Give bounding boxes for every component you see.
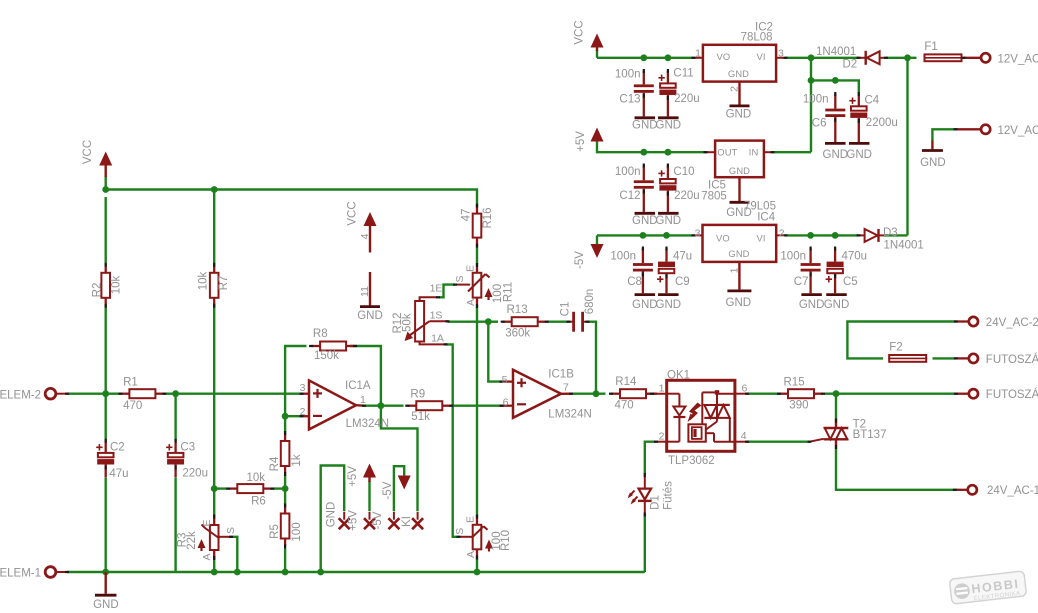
wire -5V bus	[596, 235, 598, 245]
capacitor C11 (polarized)	[667, 71, 669, 83]
resistor R13	[503, 321, 512, 323]
svg-text:100n: 100n	[780, 251, 806, 263]
svg-text:47: 47	[460, 209, 472, 222]
svg-text:C1: C1	[560, 302, 572, 317]
triac T2	[835, 421, 837, 429]
wire F1 node down	[906, 58, 908, 236]
wire 24V_AC-2 net	[847, 322, 956, 359]
junction C6 branch	[808, 77, 815, 84]
wire C6/C4 horizontal	[811, 80, 859, 93]
svg-text:GND: GND	[325, 502, 337, 528]
potentiometer R12	[415, 301, 424, 342]
svg-text:470: 470	[123, 400, 142, 412]
svg-text:1N4001: 1N4001	[816, 46, 856, 58]
capacitor C2 (polarized)	[105, 441, 107, 453]
capacitor C9 (polarized)	[665, 249, 667, 262]
svg-text:GND: GND	[728, 68, 749, 79]
wire R6 left	[214, 487, 228, 489]
IC2 pin 2 lead	[738, 82, 740, 105]
wire R13 right to C1	[547, 321, 569, 323]
no-connect X GND	[339, 518, 350, 529]
power symbol VCC left	[99, 152, 112, 166]
junction top/F1	[904, 54, 911, 61]
svg-text:10k: 10k	[111, 275, 123, 294]
svg-text:22k: 22k	[186, 531, 198, 550]
resistor R1	[120, 393, 129, 395]
wire OK1 pin4 to T2 gate	[747, 441, 810, 443]
svg-text:50k: 50k	[402, 313, 414, 332]
svg-text:11: 11	[359, 286, 371, 297]
svg-text:VI: VI	[757, 51, 766, 62]
svg-text:100n: 100n	[803, 94, 829, 106]
svg-text:VI: VI	[757, 232, 766, 243]
junction rail/R3	[211, 569, 218, 576]
svg-text:7805: 7805	[701, 191, 727, 203]
svg-text:360k: 360k	[505, 328, 530, 340]
junction R15/T2	[833, 390, 840, 397]
IC1B pin 6 stub	[502, 405, 514, 407]
svg-text:220u: 220u	[182, 468, 208, 480]
svg-text:D2: D2	[843, 59, 858, 71]
svg-text:ELEM-2: ELEM-2	[0, 389, 41, 401]
svg-text:LM324N: LM324N	[346, 418, 389, 430]
IC1A pin 3 stub	[302, 393, 310, 395]
connector pad 12V_AC-1	[964, 57, 982, 59]
connector pad ELEM-1	[45, 567, 56, 578]
svg-text:+5V: +5V	[575, 131, 587, 152]
wire IC1B out to R14	[596, 393, 606, 395]
ground GND C7	[801, 293, 822, 296]
svg-text:5: 5	[502, 374, 508, 386]
svg-text:A: A	[465, 551, 477, 558]
wire R2 bottom to ELEM-2 row	[104, 306, 106, 394]
junction ELEM-2/C3	[172, 390, 179, 397]
ground GND C13	[635, 116, 656, 119]
junction rail/GNDX	[317, 569, 324, 576]
power symbol VCC mid	[364, 212, 377, 226]
svg-text:VCC: VCC	[347, 201, 359, 225]
wire R16 to R11	[476, 246, 478, 266]
wire R12 1A to R10 S	[446, 344, 459, 536]
svg-text:E: E	[465, 516, 477, 523]
wire T2 bottom to 24V_AC-1	[836, 447, 955, 490]
svg-text:GND: GND	[632, 119, 658, 131]
svg-text:100n: 100n	[610, 251, 636, 263]
svg-text:S: S	[454, 528, 466, 535]
wire 1E net	[439, 285, 455, 298]
ground GND under rail	[104, 572, 106, 594]
wire X1 GND path	[321, 466, 345, 573]
wire X3 -5V path	[394, 466, 404, 511]
resistor R5	[284, 506, 286, 514]
svg-text:A: A	[201, 553, 213, 560]
regulator IC2 78L08	[703, 45, 776, 82]
svg-text:390: 390	[789, 399, 808, 411]
svg-text:79L05: 79L05	[744, 200, 776, 212]
svg-text:+5V: +5V	[347, 466, 359, 487]
svg-text:24V_AC-2: 24V_AC-2	[986, 317, 1038, 329]
diode D3	[859, 234, 865, 236]
svg-text:C6: C6	[812, 117, 827, 129]
svg-text:1E: 1E	[430, 283, 443, 295]
svg-text:3: 3	[778, 47, 784, 59]
capacitor C4 (polarized)	[858, 94, 860, 106]
svg-text:IC1B: IC1B	[548, 368, 574, 380]
svg-text:IC1A: IC1A	[345, 380, 371, 392]
wire OK1 pin2 to D1	[645, 442, 656, 475]
capacitor C8	[642, 249, 644, 264]
svg-text:R10: R10	[500, 530, 512, 551]
junction IC1A out	[378, 402, 385, 409]
wire 12V_AC-2 net	[932, 129, 955, 140]
svg-text:R16: R16	[482, 207, 494, 228]
IC5 GND lead	[738, 177, 740, 201]
wire VCC bus	[104, 176, 106, 190]
IC2 pin 3 lead	[776, 57, 785, 59]
IC5 IN lead	[764, 151, 773, 153]
wire IC1A out feedback down	[381, 406, 418, 511]
junction pin2/R4/R8	[282, 413, 289, 420]
svg-text:C4: C4	[865, 94, 880, 106]
svg-text:IC5: IC5	[708, 179, 726, 191]
wire IC1B out	[571, 393, 596, 395]
svg-text:470u: 470u	[842, 250, 868, 262]
svg-text:KI: KI	[401, 516, 413, 527]
svg-text:Fütés: Fütés	[662, 481, 674, 510]
wire R9 to IC1B pin6	[453, 405, 502, 407]
svg-text:C9: C9	[675, 276, 690, 288]
svg-text:R4: R4	[269, 456, 281, 471]
power symbol -5V arrow	[591, 244, 604, 258]
connector pad 24V_AC-2	[956, 320, 969, 322]
svg-text:ELEM-1: ELEM-1	[0, 568, 41, 580]
wire VCC bus horizontal	[106, 190, 477, 207]
fuse F2	[889, 355, 926, 362]
resistor R4	[284, 433, 286, 441]
wire ELEM-1 rail	[67, 571, 645, 573]
diode D2	[859, 57, 865, 59]
resistor R15	[779, 393, 788, 395]
svg-text:1: 1	[659, 383, 665, 395]
wire R2 col to C2	[104, 394, 106, 441]
wire R3 A to rail	[213, 557, 215, 572]
svg-text:10k: 10k	[198, 271, 210, 290]
LED D1	[644, 475, 646, 489]
svg-text:IN: IN	[749, 146, 759, 157]
connector pad FUTOSZAL-2	[956, 393, 969, 395]
junction top/C13	[640, 54, 647, 61]
svg-text:C13: C13	[619, 93, 640, 105]
svg-text:47u: 47u	[673, 250, 692, 262]
svg-text:GND: GND	[93, 599, 119, 611]
svg-text:FUTOSZÁL-2: FUTOSZÁL-2	[986, 388, 1038, 401]
junction VCC/R2	[102, 186, 109, 193]
junction rail/R3S	[234, 569, 241, 576]
svg-text:2: 2	[779, 227, 785, 239]
svg-text:D3: D3	[883, 227, 898, 239]
svg-text:VCC: VCC	[82, 140, 94, 164]
svg-text:6: 6	[742, 383, 748, 395]
wire IC2 pin3 to D2	[786, 57, 859, 59]
wire R8 feedback left	[285, 346, 306, 416]
wire R7 top	[213, 190, 215, 266]
svg-text:7: 7	[563, 381, 569, 393]
wire +5V bus	[597, 141, 706, 153]
svg-text:R5: R5	[269, 524, 281, 539]
resistor R7	[213, 265, 215, 273]
svg-text:R1: R1	[123, 377, 138, 389]
ground GND (LM324 pin 11)	[369, 272, 371, 306]
regulator IC5 7805	[715, 141, 764, 178]
ground GND C10	[658, 212, 679, 215]
wire D1 to rail	[644, 515, 646, 573]
svg-text:1: 1	[360, 394, 366, 406]
trimmer R11	[476, 265, 478, 273]
wire R10 A to rail	[476, 558, 478, 573]
svg-text:-5V: -5V	[372, 511, 384, 529]
svg-text:R14: R14	[615, 376, 637, 388]
wire X2 +5V stem	[368, 481, 370, 511]
capacitor C13	[643, 71, 645, 84]
wire ELEM-2 row right of R1	[165, 393, 303, 395]
svg-text:6: 6	[503, 396, 509, 408]
svg-text:1k: 1k	[291, 454, 303, 466]
resistor R9	[407, 405, 416, 407]
svg-text:4: 4	[741, 430, 747, 442]
T2 gate lead	[810, 439, 824, 442]
power symbol +5V arrow	[591, 128, 604, 142]
svg-text:150k: 150k	[314, 350, 339, 362]
connector pad ELEM-2	[45, 388, 56, 399]
connector pad 24V_AC-1	[955, 489, 968, 491]
svg-text:GND: GND	[726, 108, 752, 120]
svg-text:GND: GND	[726, 297, 752, 309]
wire R15 to FUTOSZAL-2	[824, 393, 956, 395]
svg-text:-5V: -5V	[382, 481, 394, 499]
wire D3 to vertical	[884, 234, 908, 236]
wire -5V bus right	[597, 234, 694, 236]
svg-text:GND: GND	[357, 310, 383, 322]
op-amp IC1A	[309, 380, 356, 429]
svg-text:100n: 100n	[615, 166, 641, 178]
ground GND C8	[635, 293, 656, 296]
svg-text:GND: GND	[824, 299, 850, 311]
junction -5V/C5	[832, 232, 839, 239]
junction rail/R5	[282, 569, 289, 576]
svg-text:R8: R8	[313, 328, 328, 340]
wire R7 bottom long	[213, 306, 215, 489]
svg-text:470: 470	[615, 399, 634, 411]
wire C1 to IC1B out	[588, 322, 597, 394]
no-connect X +5V	[364, 518, 375, 529]
svg-text:A: A	[465, 299, 477, 306]
junction -5V/C8	[640, 232, 647, 239]
svg-text:VO: VO	[716, 232, 730, 243]
ground GND C12	[635, 212, 656, 215]
svg-text:C2: C2	[110, 442, 125, 454]
svg-text:C11: C11	[673, 68, 693, 80]
svg-text:R9: R9	[410, 389, 425, 401]
svg-text:R6: R6	[251, 495, 266, 507]
capacitor C3 (polarized)	[174, 441, 176, 453]
wire R7 col to R3	[213, 489, 215, 517]
svg-text:2: 2	[300, 406, 306, 418]
wire top bus right	[597, 57, 694, 59]
svg-text:BT137: BT137	[853, 429, 887, 441]
ground GND IC4	[727, 289, 751, 292]
svg-text:GND: GND	[823, 149, 849, 161]
junction -5V/C9	[663, 232, 670, 239]
svg-text:LM324N: LM324N	[548, 409, 591, 421]
ground GND 12V_AC-2	[931, 141, 933, 150]
wire 7805 IN to +12V	[773, 151, 812, 153]
svg-text:2: 2	[659, 431, 665, 443]
ground GND C11	[658, 116, 679, 119]
OK1 pin 2 lead	[656, 441, 667, 443]
junction IC1B out/C1	[593, 390, 600, 397]
svg-text:C3: C3	[180, 442, 195, 454]
svg-text:GND: GND	[656, 119, 682, 131]
wire IC1B pin5 net	[488, 322, 501, 382]
svg-text:IC4: IC4	[757, 212, 776, 224]
wire C3 to rail	[174, 478, 176, 573]
junction R6/R4/R5	[282, 485, 289, 492]
svg-text:C12: C12	[619, 190, 640, 202]
svg-text:GND: GND	[632, 215, 658, 227]
no-connect X KI	[412, 518, 423, 529]
wire IC1A out	[364, 405, 381, 407]
svg-text:3: 3	[300, 382, 306, 394]
wire R6 right	[273, 487, 286, 489]
svg-text:1N4001: 1N4001	[884, 239, 924, 251]
IC4 pin 1 lead	[738, 262, 740, 290]
fuse F1	[925, 54, 962, 61]
svg-text:GND: GND	[729, 165, 750, 176]
svg-text:R13: R13	[507, 304, 528, 316]
svg-text:-5V: -5V	[574, 251, 586, 269]
svg-text:R11: R11	[503, 282, 515, 302]
wire D2 to F1 node	[886, 57, 917, 59]
wire IC4 pin2 to D3	[786, 234, 859, 236]
wire ELEM-2 row left	[67, 393, 121, 395]
wire R4 top	[284, 416, 286, 433]
svg-text:24V_AC-1: 24V_AC-1	[987, 485, 1038, 497]
capacitor C5 (polarized)	[834, 249, 836, 262]
wire R4 to R5	[284, 475, 286, 506]
svg-text:VCC: VCC	[574, 20, 586, 44]
ground GND IC5	[730, 201, 750, 204]
OK1 pin 6 lead	[735, 393, 747, 395]
svg-text:C7: C7	[794, 276, 809, 288]
svg-text:+5V: +5V	[347, 510, 359, 531]
svg-text:F2: F2	[889, 341, 902, 353]
wire T2 top	[835, 394, 837, 421]
resistor R6	[228, 487, 237, 489]
wire R11 A down	[476, 306, 478, 517]
svg-text:C8: C8	[627, 276, 642, 288]
svg-text:S: S	[454, 275, 466, 282]
junction +5V/C12	[640, 149, 647, 156]
resistor R16	[476, 206, 478, 214]
svg-text:78L08: 78L08	[741, 32, 773, 44]
svg-text:10k: 10k	[247, 472, 266, 484]
svg-text:2: 2	[728, 86, 740, 92]
svg-text:VO: VO	[717, 51, 731, 62]
ground GND C4	[849, 142, 870, 145]
IC1B output stub	[561, 393, 571, 395]
junction R6/R7	[211, 485, 218, 492]
trimmer R10	[476, 517, 478, 525]
svg-text:47u: 47u	[109, 468, 128, 480]
svg-text:GND: GND	[728, 248, 749, 259]
svg-text:C10: C10	[673, 166, 694, 178]
junction 1S/R13/pin5	[485, 318, 492, 325]
wire IC1A out to R9	[381, 405, 404, 407]
IC5 OUT lead	[706, 151, 716, 153]
IC4 pin 3 lead	[694, 234, 703, 236]
svg-text:1: 1	[695, 47, 701, 59]
wire R13 left	[488, 321, 498, 323]
wire IC1A pin2	[285, 415, 301, 417]
OK1 inner triac	[715, 390, 719, 394]
OK1 zero-cross box	[688, 424, 705, 441]
svg-text:E: E	[201, 519, 213, 526]
svg-text:100n: 100n	[615, 68, 641, 80]
wire OK1 pin6 to R15	[747, 393, 780, 395]
capacitor C10 (polarized)	[667, 166, 669, 180]
svg-text:GND: GND	[799, 299, 825, 311]
IC4 pin 2 lead	[776, 234, 785, 236]
svg-text:TLP3062: TLP3062	[668, 455, 715, 467]
power symbol +5V arrow mid	[363, 464, 376, 478]
svg-text:GND: GND	[632, 299, 658, 311]
svg-text:1: 1	[729, 267, 741, 273]
svg-text:OUT: OUT	[717, 146, 737, 157]
regulator IC4 79L05	[703, 225, 777, 262]
no-connect X -5V	[388, 518, 399, 529]
capacitor C6	[834, 94, 836, 109]
junction +5V/C10	[665, 149, 672, 156]
ground GND C6	[825, 142, 846, 145]
IC1A pin 2 stub	[302, 415, 310, 417]
wire F2 to FUTOSZAL-1	[933, 357, 957, 359]
svg-text:2200u: 2200u	[866, 117, 898, 129]
svg-text:OK1: OK1	[667, 370, 690, 382]
OK1 pin 1 lead	[646, 393, 667, 395]
resistor R14	[611, 393, 620, 395]
svg-text:FUTOSZÁL-1: FUTOSZÁL-1	[986, 353, 1038, 366]
op-amp IC1B	[513, 370, 561, 418]
wire C3 column	[174, 394, 176, 441]
IC1B pin 5 stub	[502, 380, 514, 382]
ground GND IC2	[730, 105, 750, 108]
OK1 pin 4 lead	[735, 441, 747, 443]
svg-text:S: S	[225, 527, 237, 534]
ground GND C9	[658, 293, 679, 296]
svg-text:E: E	[465, 265, 477, 272]
capacitor C1	[569, 321, 574, 323]
wire R3 S to rail	[231, 537, 237, 572]
resistor R8	[311, 345, 320, 347]
wire C6/C4 branch	[810, 58, 812, 152]
ground GND C5	[826, 293, 847, 296]
wire C2 to ELEM-1 rail	[104, 478, 106, 573]
svg-text:R7: R7	[218, 276, 230, 291]
wire R2 top	[104, 197, 106, 265]
svg-text:C5: C5	[843, 276, 858, 288]
svg-text:220u: 220u	[674, 93, 700, 105]
svg-text:680n: 680n	[584, 289, 596, 315]
